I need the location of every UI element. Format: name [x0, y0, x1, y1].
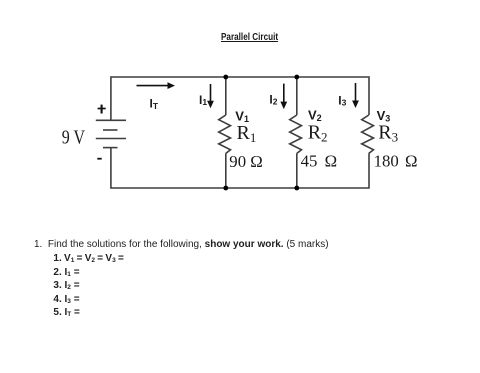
svg-text:90 Ω: 90 Ω [229, 152, 262, 171]
svg-text:45 Ω: 45 Ω [301, 152, 337, 171]
svg-text:R2: R2 [308, 121, 328, 144]
svg-text:I1: I1 [199, 93, 207, 107]
svg-text:I3: I3 [338, 93, 346, 107]
svg-text:9 V: 9 V [62, 126, 86, 148]
svg-text:R3: R3 [378, 121, 398, 144]
svg-text:IT: IT [150, 97, 159, 112]
svg-text:180 Ω: 180 Ω [374, 151, 418, 170]
svg-text:I2: I2 [269, 93, 277, 107]
svg-text:R1: R1 [237, 122, 257, 145]
